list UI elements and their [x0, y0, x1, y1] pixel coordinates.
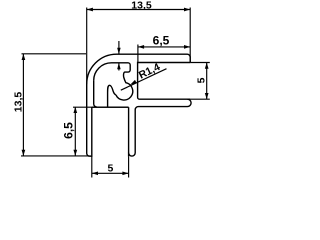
svg-text:6,5: 6,5 — [62, 122, 76, 139]
left arm slot right face — [128, 107, 130, 156]
slot faces + ext right — [189, 63, 210, 100]
profile outer shell: left arm jaw, corner arc, top face, wall A tip — [87, 54, 191, 156]
tiny dim arrows — [117, 48, 121, 54]
top 13,5 — [87, 8, 191, 85]
svg-text:5: 5 — [107, 163, 113, 175]
svg-text:13,5: 13,5 — [131, 0, 152, 12]
svg-text:5: 5 — [196, 77, 208, 83]
svg-text:13,5: 13,5 — [13, 92, 25, 113]
svg-text:R1,4: R1,4 — [137, 61, 162, 82]
left 13,5 — [22, 54, 26, 60]
6,5 top — [138, 45, 144, 49]
inner face left of screw housing — [94, 80, 97, 107]
slot closed end + slot bottom face — [138, 63, 191, 100]
svg-text:6,5: 6,5 — [153, 34, 170, 48]
inner cavity / screw channel squiggle — [94, 63, 133, 100]
housing bottom — [92, 106, 129, 108]
6,5 top — [138, 45, 190, 63]
screw channel left lobe — [108, 85, 116, 107]
right 5 — [205, 63, 209, 69]
tiny wall dim — [118, 41, 120, 71]
left 6,5 — [73, 107, 128, 156]
left 6,5 — [73, 107, 77, 113]
bottom 5 — [92, 156, 129, 177]
lip wall of top arm + inner jaw of left arm — [129, 99, 191, 156]
arrowheads: top 13,5 — [87, 8, 93, 12]
R1,4 leader arrow — [130, 80, 136, 85]
left 13,5 — [21, 54, 91, 156]
bottom 5 — [92, 171, 98, 175]
R1,4 leader — [121, 69, 167, 91]
